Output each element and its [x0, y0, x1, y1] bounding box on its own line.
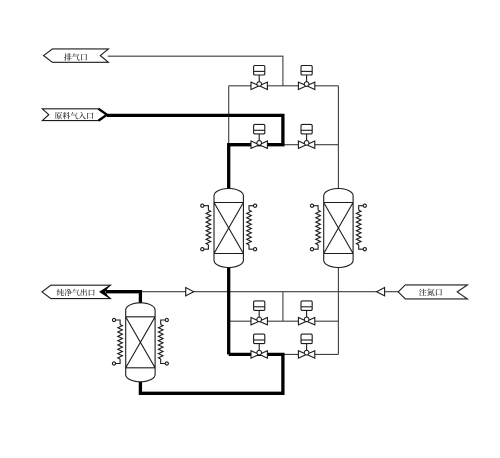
wire: row 4 right segment [283, 353, 339, 355]
valve V5 [251, 301, 267, 325]
wire: bottom manifold row 3 header [229, 320, 339, 322]
heater coil A2-left [310, 204, 320, 251]
valve V4 [298, 124, 314, 148]
valve V1 [251, 66, 267, 90]
wire: vessel A1 bottom line (bold) down to row 4 [227, 266, 230, 354]
wire: right riser row1 to vessel A2 top [337, 86, 339, 190]
vessel A2 (adsorber vessel) [324, 189, 353, 268]
wire: product outlet bold segment with vessel A3 top leg [106, 292, 140, 304]
wire: vessel A2 bottom line to row 4 [337, 266, 339, 354]
wire: exhaust line from top manifold to exhaust banner [108, 56, 283, 86]
vessel A1 (adsorber vessel) [214, 189, 243, 268]
wire: row 4 bold segment and down-leg to bottom header [140, 354, 283, 393]
heater coil A1-right [247, 204, 257, 251]
heater coil A3-left [112, 318, 122, 365]
node: product gas outlet banner 纯净气出口 [42, 285, 111, 298]
wire: product / nitrogen header line [140, 291, 398, 293]
wire: raw gas feed line (bold) to row 2 [107, 115, 283, 190]
arrow: bold outlet arrowhead into product banner [99, 285, 110, 299]
heater coil A3-right [158, 318, 168, 365]
wire: row 3 tap to nitrogen header [282, 292, 284, 322]
wire: row 2 right segment [283, 144, 339, 146]
arrow: open flow arrow pointing left near nitrogen banner [377, 288, 385, 296]
valve V2 [298, 66, 314, 90]
wire: left riser row1-row2 [228, 86, 230, 145]
heater coil A2-right [356, 204, 366, 251]
arrow: open flow arrow pointing right on product line [186, 288, 194, 296]
heater coil A1-left [201, 204, 211, 251]
wire: top manifold row 1 header [229, 85, 339, 87]
node: exhaust port banner 排气口 [44, 49, 109, 62]
valve V8 [298, 334, 314, 358]
node: nitrogen inlet banner 注氮口 [398, 285, 467, 299]
node: raw gas inlet banner 原料气入口 [42, 109, 107, 121]
valve V3 [251, 124, 267, 148]
valve V7 [251, 334, 267, 358]
vessel A3 (adsorber vessel) [126, 303, 155, 382]
valve V6 [298, 301, 314, 325]
